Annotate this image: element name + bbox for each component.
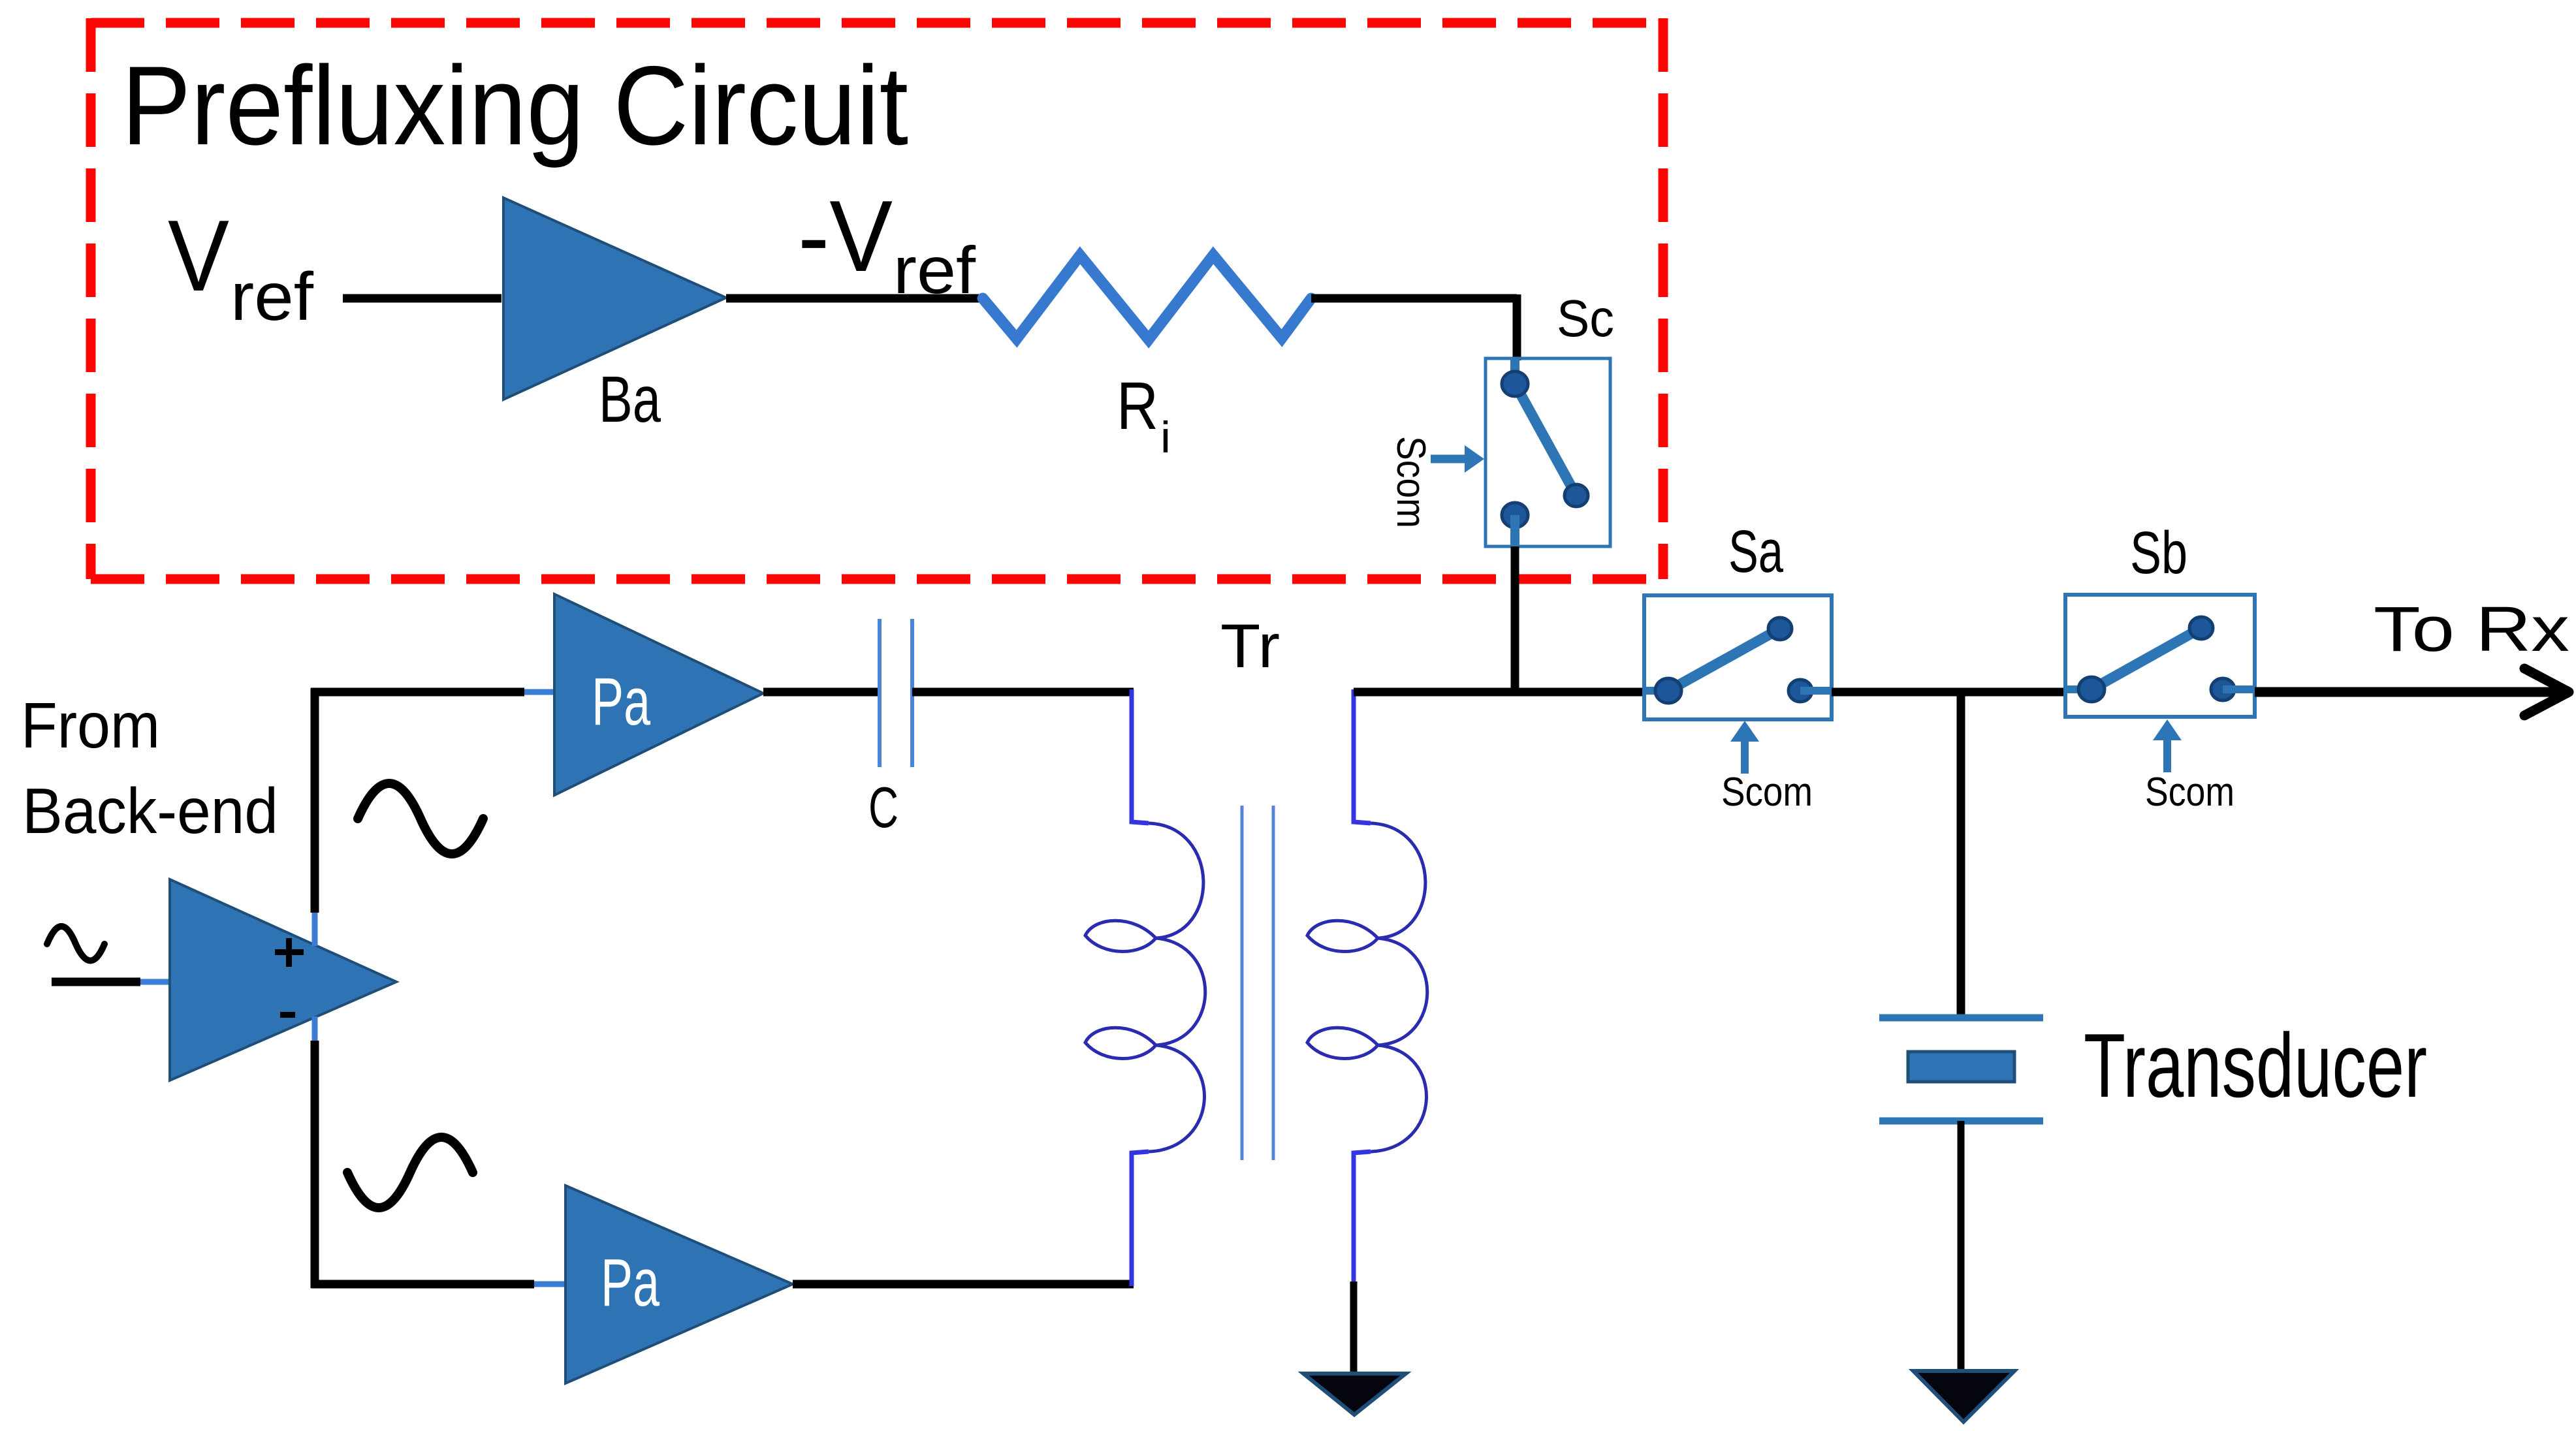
- capacitor C: [868, 619, 912, 840]
- power amplifier Pa bottom: [565, 1186, 793, 1383]
- buffer amplifier Ba: [503, 198, 726, 436]
- node Vref label: [168, 199, 314, 335]
- label From Back-end: [21, 689, 278, 847]
- svg-text:-V: -V: [798, 180, 893, 292]
- wire Ba output to resistor Ri: [726, 294, 985, 303]
- transformer Tr label: [1220, 612, 1280, 681]
- wire capacitor C to transformer primary: [912, 688, 1134, 697]
- sine symbol negative phase: [347, 1137, 473, 1208]
- wire op-amp non-inverting branch up to Pa top: [311, 688, 554, 946]
- svg-text:Scom: Scom: [1721, 770, 1813, 815]
- sine symbol positive phase: [358, 783, 483, 854]
- switch Sa: [1644, 518, 1832, 719]
- label To Rx: [2374, 593, 2569, 665]
- title Prefluxing Circuit: [121, 43, 908, 168]
- wire switch Sc to output bus: [1511, 546, 1519, 696]
- transducer symbol: [1879, 1015, 2427, 1121]
- label Scom for Sb: [2145, 719, 2234, 815]
- svg-text:Ba: Ba: [599, 363, 661, 436]
- label Scom for Sa: [1721, 721, 1813, 815]
- svg-text:Back-end: Back-end: [22, 775, 278, 847]
- wire transformer secondary to ground: [1350, 1282, 1358, 1376]
- svg-text:From: From: [21, 689, 160, 761]
- node -Vref label: [798, 180, 976, 307]
- svg-text:Sc: Sc: [1557, 289, 1614, 347]
- wire switch Sb to Rx output arrow: [2255, 668, 2569, 715]
- transformer Tr core: [1242, 806, 1273, 1160]
- wire op-amp inverting branch down to Pa bottom: [311, 1016, 565, 1288]
- label Scom for Sc: [1388, 436, 1484, 528]
- svg-text:Pa: Pa: [592, 664, 651, 739]
- wire transformer secondary top to switch Sa: [1354, 688, 1644, 697]
- svg-text:Tr: Tr: [1220, 612, 1280, 681]
- svg-text:C: C: [868, 775, 898, 840]
- svg-text:ref: ref: [231, 259, 314, 335]
- ground under transformer: [1303, 1374, 1406, 1415]
- wire bus junction down to transducer: [1957, 692, 1965, 1018]
- resistor Ri: [983, 255, 1311, 462]
- svg-text:R: R: [1117, 368, 1158, 443]
- ground under transducer: [1913, 1371, 2014, 1422]
- svg-text:Transducer: Transducer: [2084, 1015, 2427, 1116]
- svg-text:Prefluxing Circuit: Prefluxing Circuit: [121, 43, 908, 168]
- svg-text:Sb: Sb: [2130, 520, 2187, 586]
- svg-text:Scom: Scom: [2145, 770, 2234, 815]
- wire Vref to buffer Ba input: [343, 294, 501, 303]
- wire Pa bottom output to transformer primary bottom: [793, 1280, 1134, 1289]
- wire transducer to ground: [1958, 1121, 1965, 1374]
- op-amp U1 differential driver: [170, 879, 396, 1080]
- svg-text:Pa: Pa: [601, 1245, 660, 1320]
- svg-text:Scom: Scom: [1388, 436, 1433, 528]
- wire switch Sa to switch Sb: [1832, 688, 2065, 697]
- svg-text:Sa: Sa: [1728, 518, 1784, 585]
- svg-text:V: V: [168, 199, 229, 312]
- power amplifier Pa top: [554, 594, 763, 795]
- switch Sb: [2065, 520, 2255, 717]
- wire Pa top output to capacitor C: [763, 688, 880, 697]
- svg-text:To Rx: To Rx: [2374, 593, 2569, 665]
- transformer Tr primary winding: [1085, 689, 1205, 1286]
- svg-text:i: i: [1160, 413, 1171, 462]
- prefluxing circuit dashed boundary box: [91, 18, 1663, 579]
- wire resistor Ri to switch Sc: [1311, 294, 1517, 360]
- wire input to op-amp U1: [52, 978, 170, 986]
- input sine source symbol: [47, 926, 104, 961]
- transformer Tr secondary winding: [1307, 689, 1427, 1282]
- switch Sc: [1486, 289, 1614, 546]
